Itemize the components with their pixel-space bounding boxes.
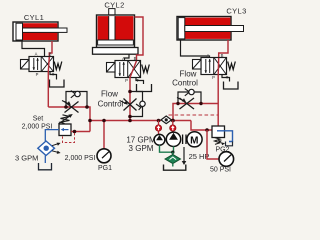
svg-text:B: B <box>134 56 137 61</box>
wire red riser junction down to PG1 <box>103 121 105 150</box>
check valve CV1 (red) above pump P1 <box>155 121 161 135</box>
node FC3 left <box>176 102 179 105</box>
tank symbol reservoir <box>164 165 186 171</box>
solenoid of valve U2 <box>107 63 116 73</box>
wire red through valve U2 down <box>130 61 137 121</box>
svg-text:P: P <box>125 78 128 83</box>
shaft coupling pump-motor <box>183 135 186 145</box>
wire green suction pump P2 <box>173 146 175 152</box>
spring W of valve U3 <box>228 62 236 70</box>
wire CYL3 rod-end to valve U3 port B (red) <box>219 40 228 58</box>
svg-text:3 GPM: 3 GPM <box>15 154 38 163</box>
svg-text:Set: Set <box>33 116 44 123</box>
wire CYL2 top to valve U2 port B (red) <box>135 17 144 61</box>
wire CYL3 cap-end to valve U3 port A <box>181 40 210 58</box>
svg-text:P: P <box>36 72 39 77</box>
tank symbol under valve U2 <box>137 84 152 92</box>
cylinder CYL2 (vertical) <box>93 9 139 55</box>
wire red FC3 branch line <box>173 104 218 121</box>
solenoid of valve U1 <box>21 60 30 70</box>
svg-text:Flow: Flow <box>180 70 197 79</box>
spring W of valve U2 <box>142 65 150 73</box>
spring W of valve U1 <box>54 62 62 70</box>
flow control FC2 bypass loop <box>130 92 143 117</box>
svg-text:A: A <box>35 52 38 57</box>
wire valve U3 T port to tank <box>222 75 230 82</box>
wire blue PRV to flow meter <box>45 130 59 141</box>
flow control FC1 bypass loop <box>66 92 87 108</box>
node pump1 tap <box>157 119 161 123</box>
strainer S1 (green diamond) <box>165 154 181 163</box>
wire red manifold to relief valve feed <box>191 121 212 131</box>
svg-text:Control: Control <box>172 79 198 88</box>
svg-text:A: A <box>122 56 125 61</box>
svg-text:Flow: Flow <box>101 90 118 99</box>
valve U1 (4/2 directional, CYL1) <box>29 57 54 72</box>
valve U2 (4/2 directional, CYL2) <box>115 61 141 78</box>
svg-text:A: A <box>207 53 210 58</box>
svg-text:2,000 PSI: 2,000 PSI <box>65 155 96 162</box>
check valve CV2 (red) above pump P2 <box>170 121 176 134</box>
svg-text:50 PSI: 50 PSI <box>210 167 231 174</box>
flow control FC1 restrictor <box>62 101 79 113</box>
tank symbol relief drain <box>226 142 233 146</box>
svg-text:P: P <box>212 75 215 80</box>
blue arrow inside PRV <box>61 128 69 131</box>
node FC3 drop on manifold <box>171 119 175 123</box>
pilot drain dashed of PRV <box>63 133 75 143</box>
pressure gauge PG2 <box>219 152 234 167</box>
node pump2 tap <box>171 119 175 123</box>
wire green suction pump P1 <box>160 145 173 152</box>
check valve D1 on manifold <box>161 116 172 124</box>
node FC2 top <box>128 90 132 94</box>
svg-text:PG1: PG1 <box>98 165 112 172</box>
cylinder CYL1 <box>13 22 67 41</box>
valve U3 (4/2 directional, CYL3) <box>201 58 227 75</box>
tank symbol under flow meter <box>39 163 52 170</box>
pressure reducing valve PRV spring and adjust arrow <box>59 114 73 124</box>
pressure gauge PG1 <box>97 149 111 163</box>
check valve in FC1 bypass <box>71 91 80 98</box>
flow control FC3 bypass loop <box>178 92 201 104</box>
node PRV outlet <box>73 130 77 134</box>
node FC2 bottom <box>128 115 132 119</box>
wire valve U1 T port to tank <box>50 72 57 80</box>
node FC3 right <box>199 102 202 105</box>
wire red PRV outlet to manifold riser <box>71 131 90 133</box>
tank symbol under valve U3 <box>224 82 239 90</box>
relief valve RV2 body <box>212 126 225 138</box>
svg-text:B: B <box>221 53 224 58</box>
node manifold left junction <box>88 119 92 123</box>
flow meter FM1 (blue diamond) <box>38 141 61 156</box>
wire red valve U1 line across FC1 <box>48 107 90 132</box>
node suction junction <box>171 151 174 154</box>
wire CYL2 flange to valve U2 port A <box>125 54 130 60</box>
wire red through valve U1 down (P line) <box>48 57 49 107</box>
pressure reducing valve PRV body <box>59 124 71 136</box>
svg-text:B: B <box>49 52 52 57</box>
wire blue relief outlet to tank <box>217 131 233 142</box>
wire CYL1 cap-end to valve V1 port A <box>22 41 45 57</box>
motor M1 (25 HP electric motor) <box>187 132 202 147</box>
flow control FC3 restrictor <box>177 98 194 110</box>
svg-text:3 GPM: 3 GPM <box>129 144 154 153</box>
wire CYL1 rod-end to valve V1 port B (pressure, red) <box>49 41 52 57</box>
svg-text:CYL1: CYL1 <box>24 13 44 22</box>
check valve in FC3 bypass <box>185 89 194 96</box>
pilot line dashed to relief <box>169 114 219 116</box>
wire valve U2 T port to tank <box>136 78 144 85</box>
node relief feed / PG2 tap <box>205 128 209 132</box>
tank symbol under valve U1 <box>50 80 65 88</box>
svg-text:M: M <box>190 135 198 146</box>
pump P1 (3 GPM) <box>154 134 165 145</box>
wire green junction to strainer <box>172 152 174 155</box>
wire red PG2 drop <box>207 130 219 159</box>
solenoid of valve U3 <box>193 60 202 70</box>
check valve in FC2 bypass <box>136 101 145 110</box>
wire red main manifold <box>90 120 161 122</box>
wire blue flow meter to tank <box>44 156 46 164</box>
node FC1 left <box>64 105 68 109</box>
svg-text:CYL3: CYL3 <box>226 7 246 16</box>
cylinder CYL3 <box>177 17 244 41</box>
node FC1 right <box>85 105 89 109</box>
drain arrow into tank <box>182 147 187 165</box>
node manifold FC2 tap <box>128 119 132 123</box>
node manifold PG1 tap <box>102 119 106 123</box>
wire green strainer to tank <box>172 164 174 167</box>
wire red through valve U3 down to relief valve <box>217 58 220 126</box>
spring of relief valve RV2 <box>215 138 226 146</box>
pump P2 (17 GPM) <box>166 132 180 146</box>
flow control FC2 restrictor <box>120 99 137 111</box>
